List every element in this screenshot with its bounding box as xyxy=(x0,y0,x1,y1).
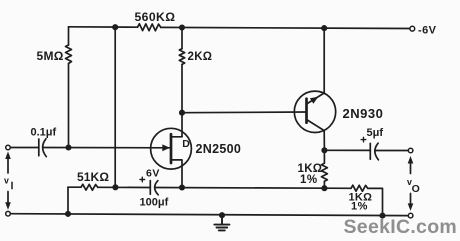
svg-text:2N930: 2N930 xyxy=(343,106,384,121)
svg-text:2N2500: 2N2500 xyxy=(196,142,242,156)
terminal output top xyxy=(408,148,413,153)
wire C 100uf to FET source node xyxy=(155,187,324,190)
ground xyxy=(214,215,229,230)
junction FET source / mid rail xyxy=(179,184,185,190)
svg-text:560KΩ: 560KΩ xyxy=(135,10,176,24)
junction top rail / 2K xyxy=(179,24,185,30)
junction bottom rail left xyxy=(65,211,71,217)
transistor 2N930 body circle xyxy=(294,91,335,132)
svg-text:100μf: 100μf xyxy=(140,196,169,208)
terminal -6V xyxy=(410,26,415,31)
resistor 51KΩ xyxy=(81,184,98,190)
resistor 2KΩ xyxy=(179,49,184,65)
junction top rail / 560K left xyxy=(112,24,118,30)
wire 5M branch top xyxy=(68,27,70,45)
FET gate arrowhead xyxy=(162,144,170,151)
svg-text:v: v xyxy=(4,175,9,185)
junction 1K bottom / mid rail xyxy=(321,185,327,191)
FET channel bar xyxy=(170,134,173,163)
resistor 1KΩ 1% horizontal xyxy=(351,185,368,191)
junction drain / base node xyxy=(179,110,185,116)
transistor base bar xyxy=(305,99,308,123)
wire feedback branch x=115 xyxy=(114,27,116,187)
junction bottom rail right xyxy=(379,213,385,219)
capacitor 0.1μf plate flat xyxy=(38,139,40,156)
capacitor 100μf plate flat xyxy=(149,181,151,195)
resistor 1KΩ 1% vertical xyxy=(321,150,327,188)
symbol plus 100μf xyxy=(140,177,145,182)
wire input to C 0.1uf xyxy=(10,147,38,149)
marker v_O arrow top xyxy=(410,161,412,174)
wire C 5uf to output terminal xyxy=(375,150,408,152)
svg-text:5μf: 5μf xyxy=(367,127,384,139)
wire mid rail to 1K horizontal xyxy=(324,187,351,189)
junction collector node xyxy=(321,147,327,153)
wire base node to 2N930 base xyxy=(182,111,307,114)
capacitor 100μf plate curved xyxy=(155,181,159,195)
wire collector down xyxy=(323,131,325,151)
wire 51K drop to bottom rail xyxy=(67,187,69,214)
transistor emitter arrowhead xyxy=(310,97,318,104)
transistor collector lead diagonal xyxy=(307,120,325,131)
wire emitter to top rail xyxy=(323,28,325,93)
svg-text:5MΩ: 5MΩ xyxy=(37,49,64,63)
wire 1K horizontal to drop xyxy=(368,188,383,215)
svg-text:D: D xyxy=(182,138,190,150)
wire top rail right segment xyxy=(161,27,410,28)
wire mid rail left of 51K xyxy=(68,186,81,188)
svg-text:-6V: -6V xyxy=(418,25,437,37)
capacitor 5μf plate curved xyxy=(375,143,379,160)
svg-text:2KΩ: 2KΩ xyxy=(188,51,213,63)
junction gate node xyxy=(65,144,71,150)
wire top rail left segment xyxy=(69,26,138,28)
marker v_O arrow bottom xyxy=(410,194,412,206)
wire 2K to FET drain xyxy=(181,64,183,136)
FET source lead xyxy=(171,160,182,188)
junction top rail / 2N930 emitter xyxy=(321,25,327,31)
svg-text:1%: 1% xyxy=(351,201,368,213)
terminal input bottom xyxy=(6,211,11,216)
svg-text:1%: 1% xyxy=(300,174,318,186)
svg-text:SeekIC.com: SeekIC.com xyxy=(344,216,458,238)
wire 5M branch bottom xyxy=(68,64,70,148)
resistor 560KΩ xyxy=(138,24,161,31)
marker v_I arrow top xyxy=(7,157,9,173)
svg-text:6V: 6V xyxy=(146,168,160,180)
capacitor 5μf plate flat xyxy=(369,143,371,159)
terminal output bottom xyxy=(408,213,413,218)
resistor 5MΩ xyxy=(66,45,72,64)
wire C 0.1uf to FET gate xyxy=(44,147,170,149)
symbol plus 5μf xyxy=(361,137,366,142)
capacitor 0.1μf plate curved xyxy=(43,139,47,157)
terminal input top xyxy=(6,145,11,150)
junction ground xyxy=(219,212,225,218)
FET 2N2500 body circle xyxy=(151,128,192,169)
marker v_I arrow bottom xyxy=(7,192,9,205)
wire 2K branch top xyxy=(181,28,183,49)
wire 51K to C 100uf xyxy=(98,186,151,188)
svg-text:O: O xyxy=(412,183,420,195)
wire collector node to C 5uf xyxy=(324,149,370,151)
svg-text:51KΩ: 51KΩ xyxy=(77,170,109,184)
wire bottom rail xyxy=(10,214,408,216)
svg-text:0.1μf: 0.1μf xyxy=(31,127,57,139)
FET drain lead xyxy=(171,136,182,138)
transistor emitter lead diagonal xyxy=(307,93,325,104)
junction feedback / mid rail xyxy=(112,184,118,190)
